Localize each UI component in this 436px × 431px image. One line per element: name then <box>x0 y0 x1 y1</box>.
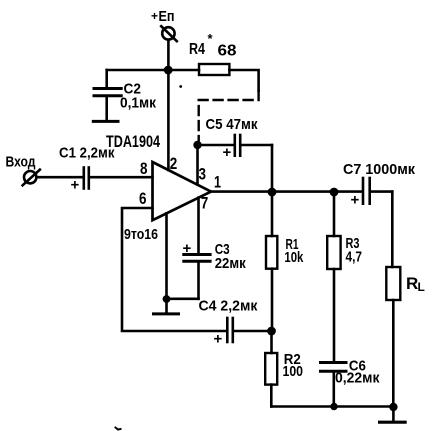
wire (dashed): R4 to pin3/C5 node <box>199 91 259 141</box>
svg-text:R: R <box>406 274 418 293</box>
resistor R1 <box>266 192 277 331</box>
resistor R4 <box>199 64 229 75</box>
speck (scan artifact) <box>179 85 182 88</box>
node: supply junction <box>164 66 173 75</box>
wire: +Eп terminal down to supply node <box>167 40 170 70</box>
label R1 10k <box>284 236 303 266</box>
node: bottom-right ground junction <box>389 403 397 411</box>
capacitor C1 <box>84 168 89 189</box>
svg-text:0,1мк: 0,1мк <box>120 95 156 112</box>
capacitor C3 <box>184 255 210 299</box>
svg-text:C4 2,2мк: C4 2,2мк <box>199 298 258 315</box>
node: output/R3 junction <box>330 188 339 197</box>
svg-text:R4: R4 <box>189 41 205 58</box>
capacitor C7 <box>363 178 392 204</box>
ground <box>380 407 406 422</box>
svg-text:22мк: 22мк <box>215 255 246 272</box>
resistor R3 <box>327 192 340 361</box>
capacitor C2 <box>94 70 121 120</box>
svg-text:68: 68 <box>218 43 237 60</box>
svg-text:2: 2 <box>170 154 178 173</box>
label C5 47мк <box>206 116 258 161</box>
svg-text:*: * <box>208 31 214 46</box>
wire: pins 9-16 to ground node <box>165 213 168 298</box>
svg-text:+: + <box>183 240 192 257</box>
wire: pin 6 feedback to C4 <box>122 208 226 331</box>
label R2 100 <box>283 351 304 380</box>
svg-text:Вход: Вход <box>6 154 36 171</box>
label R3 4,7 <box>346 235 363 266</box>
label C4 2,2мк <box>199 298 258 348</box>
wire: pin 2 from supply node to op-amp <box>167 70 170 170</box>
svg-text:L: L <box>418 280 425 294</box>
svg-text:+: + <box>214 331 223 348</box>
capacitor C4 <box>227 318 271 342</box>
wire: supply rail (C2 branch to R4) <box>107 69 199 72</box>
svg-text:10k: 10k <box>284 249 303 266</box>
label +Eп <box>151 8 175 25</box>
svg-text:TDA1904: TDA1904 <box>106 132 160 151</box>
node: pin3 / C5 junction <box>193 141 201 149</box>
input terminal <box>23 170 40 186</box>
svg-text:6: 6 <box>139 189 147 208</box>
wire: C1 to pin 8 <box>90 176 153 179</box>
svg-text:1: 1 <box>214 173 221 192</box>
svg-text:7: 7 <box>201 193 209 212</box>
node: C6/bottom rail junction <box>330 403 337 410</box>
wire: bottom rail <box>271 405 393 408</box>
power terminal +Eп <box>161 26 177 41</box>
wire: output pin 1 <box>211 190 361 193</box>
svg-text:+: + <box>223 144 232 161</box>
label C3 22мк <box>183 240 247 272</box>
label C2 0,1мк <box>120 81 156 112</box>
svg-text:8: 8 <box>140 159 148 178</box>
wire: pin 7 down to C3 <box>197 198 200 253</box>
wire: C3 bottom to ground node <box>167 297 199 300</box>
svg-text:+: + <box>71 177 80 194</box>
svg-text:Eп: Eп <box>159 8 175 25</box>
stray mark (scan artifact) <box>116 428 121 430</box>
svg-text:C5 47мк: C5 47мк <box>206 116 258 133</box>
svg-text:0,22мк: 0,22мк <box>335 370 380 387</box>
node: ground junction <box>163 295 171 303</box>
ground <box>154 299 179 314</box>
label RL <box>406 274 425 294</box>
wire: R4 right side down <box>229 70 258 91</box>
ground (C2 common bar) <box>93 120 118 123</box>
wire: pin 3 from node to op-amp <box>196 145 199 185</box>
capacitor C5 <box>198 135 273 192</box>
svg-text:100: 100 <box>283 363 304 380</box>
svg-text:+: + <box>151 9 158 23</box>
label C1 2,2мк <box>59 145 115 194</box>
svg-text:9то16: 9то16 <box>124 226 158 243</box>
resistor RL <box>386 267 400 407</box>
wire: input terminal to C1 <box>36 176 82 179</box>
svg-text:4,7: 4,7 <box>346 249 363 266</box>
op-amp U1 TDA1904 <box>153 162 212 220</box>
svg-text:+: + <box>351 192 360 209</box>
node: output/R1 junction <box>268 188 277 197</box>
svg-text:3: 3 <box>199 165 207 184</box>
wire: C7 to RL <box>391 192 394 267</box>
label R4* 68 <box>189 31 237 60</box>
resistor R2 <box>265 331 277 407</box>
capacitor C6 <box>321 363 347 407</box>
svg-text:C7 1000мк: C7 1000мк <box>343 161 415 178</box>
node: C4/R1/R2 junction <box>267 327 276 336</box>
label C7 1000мк <box>343 161 415 209</box>
label C6 0,22мк <box>335 358 380 387</box>
